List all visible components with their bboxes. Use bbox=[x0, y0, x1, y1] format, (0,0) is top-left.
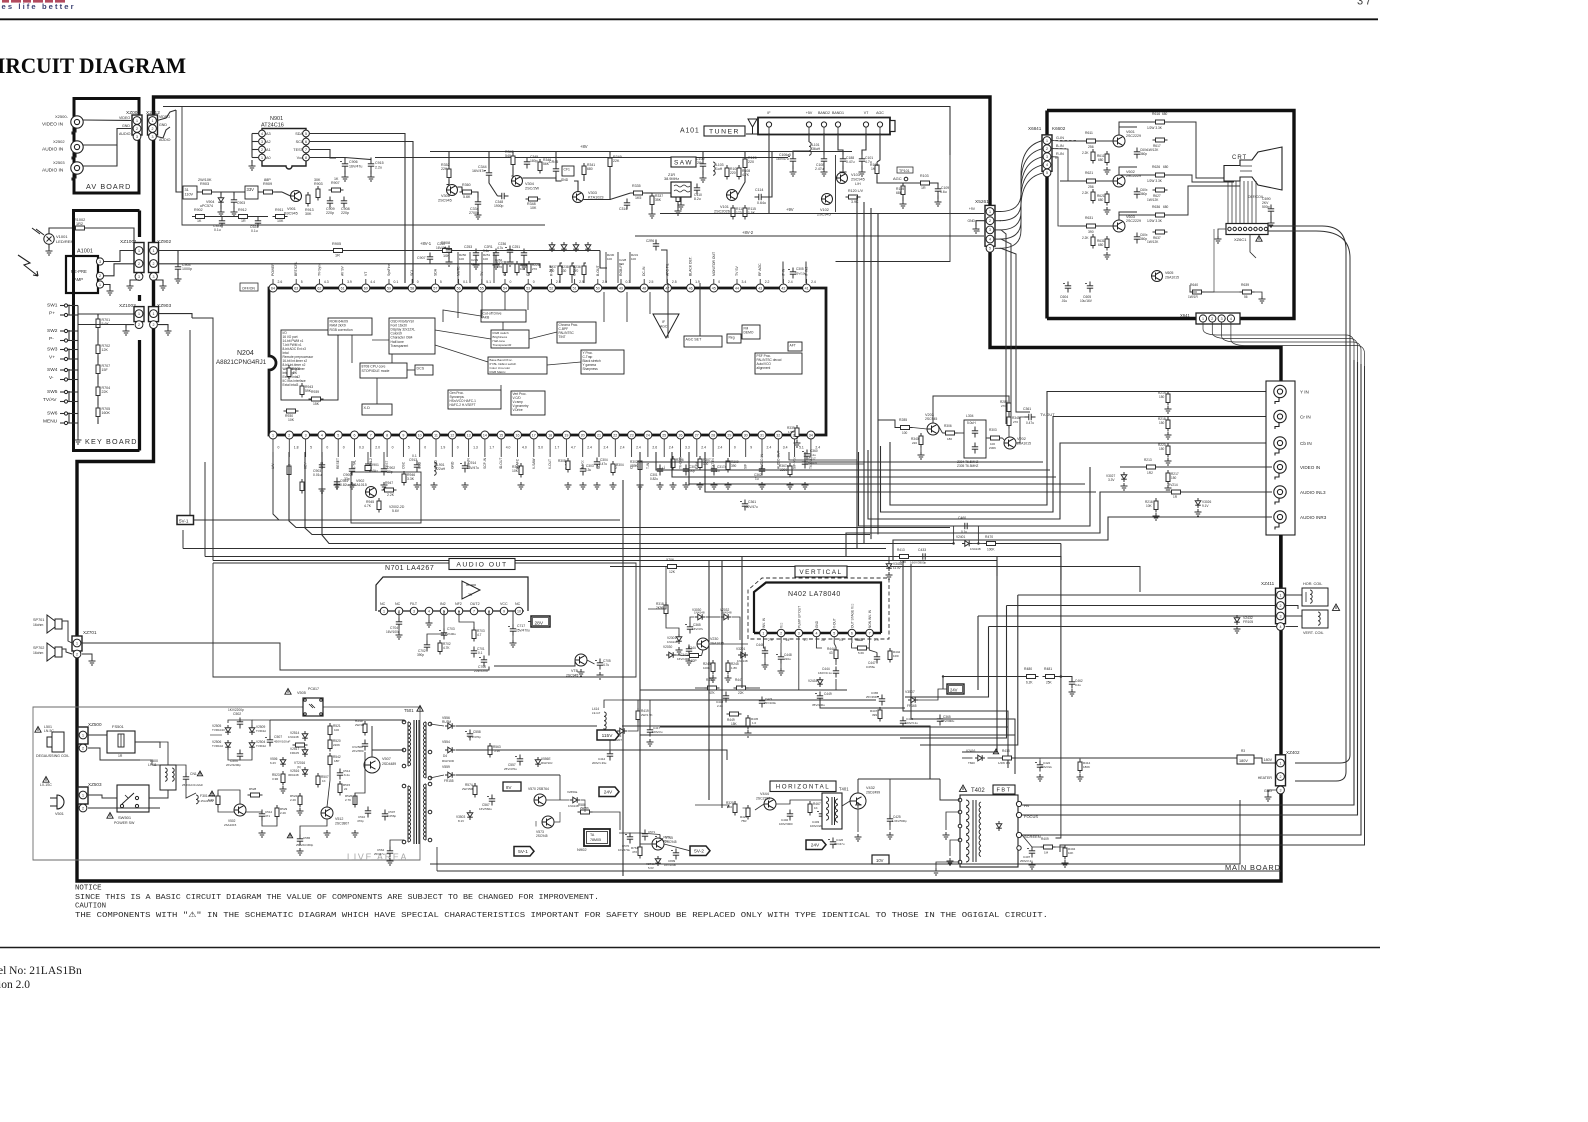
FBT winding primary bbox=[966, 842, 969, 848]
wire bbox=[805, 262, 807, 284]
svg-text:XZ500: XZ500 bbox=[88, 722, 102, 727]
wire bbox=[68, 305, 78, 307]
svg-text:2SC2229: 2SC2229 bbox=[1126, 219, 1141, 223]
ground bbox=[900, 201, 907, 208]
zener diode V904 bbox=[218, 195, 224, 205]
tuner pin +5V bbox=[806, 122, 811, 127]
svg-text:5.0uH: 5.0uH bbox=[967, 421, 976, 425]
svg-text:4: 4 bbox=[428, 609, 430, 613]
svg-text:1: 1 bbox=[76, 641, 78, 645]
capacitor C365 bbox=[687, 623, 693, 634]
svg-text:39K: 39K bbox=[632, 464, 639, 468]
safety warning mark bbox=[1332, 604, 1339, 610]
diode V2401 bbox=[962, 541, 972, 547]
svg-text:IRCUIT DIAGRAM: IRCUIT DIAGRAM bbox=[0, 53, 186, 78]
wire bbox=[806, 279, 808, 284]
svg-text:L9-G7: L9-G7 bbox=[592, 711, 601, 715]
svg-text:C502: C502 bbox=[233, 712, 241, 716]
wire bbox=[631, 439, 633, 444]
svg-text:0.056u: 0.056u bbox=[866, 665, 876, 669]
svg-text:0: 0 bbox=[424, 446, 426, 450]
wire bbox=[60, 314, 64, 316]
svg-text:TV-Sync: TV-Sync bbox=[317, 263, 321, 276]
wire bbox=[192, 318, 213, 561]
svg-text:2: 2 bbox=[1211, 317, 1213, 321]
safety warning mark bbox=[107, 813, 113, 819]
diode V559 bbox=[445, 772, 455, 778]
capacitor C305 bbox=[790, 268, 796, 279]
wire bbox=[425, 722, 427, 778]
wire bbox=[587, 660, 595, 664]
svg-text:2.4: 2.4 bbox=[587, 446, 592, 450]
svg-text:5: 5 bbox=[833, 631, 835, 635]
svg-text:256: 256 bbox=[1088, 185, 1094, 189]
svg-text:KEY: KEY bbox=[304, 462, 308, 469]
None bbox=[1091, 189, 1095, 204]
svg-text:30K: 30K bbox=[314, 178, 321, 182]
wire bbox=[251, 160, 253, 163]
resistor R930 bbox=[284, 409, 299, 413]
svg-text:24V: 24V bbox=[604, 790, 613, 796]
svg-text:4.7: 4.7 bbox=[477, 633, 482, 637]
svg-text:2SC945: 2SC945 bbox=[665, 840, 677, 844]
svg-text:6.2V: 6.2V bbox=[270, 761, 276, 765]
resistor R761 bbox=[638, 844, 642, 859]
svg-text:FR105: FR105 bbox=[290, 751, 299, 755]
wire bbox=[158, 314, 192, 318]
T501 secondary winding bbox=[423, 770, 426, 774]
svg-text:V-SAW: V-SAW bbox=[532, 458, 536, 469]
T501 secondary winding bbox=[423, 722, 426, 726]
ground bbox=[790, 169, 797, 176]
wire bbox=[972, 543, 984, 545]
svg-text:V2030: V2030 bbox=[663, 645, 672, 649]
wire bbox=[695, 805, 729, 808]
capacitor C417 bbox=[647, 726, 653, 737]
wire bbox=[354, 439, 356, 444]
svg-text:8: 8 bbox=[386, 433, 388, 437]
svg-text:100V/3.2u: 100V/3.2u bbox=[905, 721, 918, 725]
svg-text:0.47u: 0.47u bbox=[846, 160, 855, 164]
svg-text:R481: R481 bbox=[1044, 667, 1052, 671]
wire bbox=[60, 422, 64, 424]
ground bbox=[1104, 252, 1111, 259]
None bbox=[1084, 139, 1099, 143]
wire stage2 in bbox=[1051, 149, 1084, 181]
wire bbox=[652, 190, 678, 193]
ground bbox=[686, 658, 693, 665]
T501 secondary winding 2 bbox=[423, 824, 426, 828]
wire bbox=[1268, 790, 1276, 794]
resistor R616 bbox=[1153, 120, 1168, 124]
wire bbox=[680, 444, 682, 457]
wire B+ to horizontal output bbox=[622, 726, 930, 779]
IC block IF AGC bbox=[653, 314, 679, 338]
wire bbox=[741, 557, 743, 689]
resistor R520 bbox=[328, 737, 332, 752]
diode bbox=[585, 242, 591, 252]
svg-text:3: 3 bbox=[1280, 614, 1282, 618]
N901 pin Vcc bbox=[303, 154, 310, 161]
svg-text:+9V: +9V bbox=[969, 207, 976, 211]
diode V2650 bbox=[570, 797, 580, 803]
svg-text:15K: 15K bbox=[313, 402, 320, 406]
safety warning mark bbox=[1256, 236, 1262, 242]
svg-text:BAND1: BAND1 bbox=[832, 111, 844, 115]
svg-text:220u: 220u bbox=[784, 657, 791, 661]
svg-text:0.01u: 0.01u bbox=[313, 473, 322, 477]
resistor R367 bbox=[788, 463, 792, 478]
T501 aux winding bbox=[408, 806, 411, 810]
resistor R284 bbox=[1007, 400, 1011, 415]
svg-text:1.7: 1.7 bbox=[803, 638, 808, 642]
zener diode V3027 bbox=[1121, 472, 1127, 482]
wire bbox=[696, 439, 698, 444]
resistor R303 bbox=[988, 436, 1003, 440]
svg-text:16V/470u: 16V/470u bbox=[618, 848, 630, 852]
T501 secondary winding 2 bbox=[423, 792, 426, 796]
wire bbox=[690, 279, 692, 284]
svg-text:1: 1 bbox=[383, 609, 385, 613]
connector XZ402 bbox=[1276, 755, 1286, 786]
wire bbox=[451, 439, 453, 444]
wire bbox=[878, 420, 898, 428]
wire CRT video harness bbox=[1203, 323, 1354, 361]
resistor R913 bbox=[306, 192, 310, 207]
T501 secondary winding 2 bbox=[423, 800, 426, 804]
svg-text:5: 5 bbox=[440, 280, 442, 284]
wire bbox=[68, 413, 78, 415]
wire bbox=[252, 149, 258, 151]
svg-text:T-IN: T-IN bbox=[646, 462, 650, 469]
svg-text:C361: C361 bbox=[748, 500, 756, 504]
wire bbox=[183, 548, 886, 550]
svg-text:16V/47u: 16V/47u bbox=[467, 466, 479, 470]
svg-text:SW1: SW1 bbox=[47, 303, 58, 309]
svg-text:SP701: SP701 bbox=[33, 618, 44, 622]
resistor R307 bbox=[698, 456, 702, 471]
svg-text:4: 4 bbox=[261, 132, 263, 136]
ground bbox=[887, 832, 894, 839]
svg-text:R621: R621 bbox=[1085, 171, 1093, 175]
resistor X706 bbox=[665, 565, 680, 569]
wire bbox=[310, 157, 345, 159]
wire bbox=[712, 439, 714, 444]
FBT FOCUS terminal bbox=[1016, 812, 1021, 817]
svg-text:36uH: 36uH bbox=[812, 147, 821, 151]
capacitor C913 bbox=[414, 461, 420, 472]
wire bbox=[300, 819, 327, 835]
wire bbox=[104, 251, 134, 262]
svg-text:1N4148: 1N4148 bbox=[288, 735, 299, 739]
svg-text:TV-OUT: TV-OUT bbox=[1040, 412, 1055, 417]
svg-text:3: 3 bbox=[136, 135, 138, 139]
wire bbox=[448, 152, 450, 167]
svg-text:FBT: FBT bbox=[996, 788, 1011, 794]
wire bbox=[386, 444, 388, 457]
transistor V202 bbox=[1004, 437, 1016, 449]
svg-text:Y IN: Y IN bbox=[1300, 390, 1309, 395]
wire bbox=[859, 452, 1091, 526]
svg-text:A8821CPNG4RJ1: A8821CPNG4RJ1 bbox=[216, 359, 267, 366]
wire bbox=[1119, 215, 1153, 220]
svg-text:DCS: DCS bbox=[417, 367, 425, 371]
svg-text:5.6V: 5.6V bbox=[392, 509, 400, 513]
None bbox=[1134, 188, 1140, 199]
None bbox=[1105, 236, 1109, 251]
svg-text:100: 100 bbox=[334, 728, 339, 732]
resistor R639 bbox=[1240, 290, 1255, 294]
wire bbox=[722, 560, 893, 562]
svg-text:1: 1 bbox=[989, 210, 991, 214]
capacitor C446 bbox=[762, 647, 768, 658]
ground bbox=[446, 259, 453, 266]
svg-text:X901: X901 bbox=[371, 463, 379, 467]
diode bbox=[549, 242, 555, 252]
wire bbox=[427, 634, 444, 641]
svg-text:K6602: K6602 bbox=[1052, 126, 1066, 131]
svg-text:R306: R306 bbox=[676, 458, 684, 462]
wire bbox=[138, 340, 141, 451]
wire bbox=[614, 439, 616, 444]
svg-text:1: 1 bbox=[138, 249, 140, 253]
svg-text:10K: 10K bbox=[530, 206, 537, 210]
capacitor C701 bbox=[471, 647, 477, 658]
wire bbox=[282, 192, 291, 196]
ground bbox=[75, 437, 82, 444]
wire bbox=[435, 330, 491, 339]
wire CRT video harness bbox=[1231, 323, 1365, 367]
wire bbox=[640, 734, 1015, 736]
wire bbox=[780, 637, 782, 643]
diode V3030 bbox=[695, 614, 705, 620]
wire bbox=[447, 180, 450, 185]
wire bbox=[749, 687, 761, 689]
svg-text:R285: R285 bbox=[899, 418, 907, 422]
svg-text:AFT: AFT bbox=[790, 343, 796, 347]
wire bbox=[869, 637, 871, 643]
capacitor C362 bbox=[759, 465, 765, 476]
wire bbox=[97, 314, 99, 316]
diode V3507 bbox=[908, 697, 918, 703]
resistor R574 bbox=[473, 783, 477, 798]
wire bbox=[702, 650, 704, 656]
svg-text:FOCUS: FOCUS bbox=[1024, 814, 1038, 819]
wire bbox=[342, 279, 344, 284]
CRT socket XZ6C1 bbox=[1226, 224, 1268, 235]
svg-text:2SC/2W: 2SC/2W bbox=[525, 187, 540, 191]
resistor R702 bbox=[438, 640, 442, 655]
svg-text:Vcc: Vcc bbox=[297, 156, 303, 160]
AC plug V501 bbox=[50, 795, 64, 809]
wire bbox=[995, 247, 1001, 249]
ground bbox=[725, 482, 732, 489]
capacitor C924 bbox=[255, 217, 261, 228]
svg-text:2SC945: 2SC945 bbox=[851, 178, 865, 182]
svg-text:2W/10K: 2W/10K bbox=[198, 178, 212, 182]
RCA jack bbox=[1274, 511, 1286, 530]
svg-text:V901: V901 bbox=[287, 207, 296, 211]
wire bbox=[60, 358, 64, 360]
FBT internal HV diode bbox=[996, 821, 1002, 831]
live area border bbox=[33, 707, 420, 860]
svg-text:R905: R905 bbox=[332, 242, 341, 246]
svg-text:2.4: 2.4 bbox=[767, 446, 772, 450]
capacitor C903 bbox=[319, 461, 325, 472]
svg-text:0.1: 0.1 bbox=[394, 280, 399, 284]
ground bbox=[1104, 167, 1111, 174]
T501 secondary winding 2 bbox=[423, 836, 426, 840]
ground bbox=[637, 482, 644, 489]
wire bbox=[768, 127, 770, 134]
svg-text:C449: C449 bbox=[824, 692, 832, 696]
wire bbox=[861, 166, 863, 170]
antenna symbol bbox=[746, 119, 759, 134]
wire bbox=[877, 176, 918, 183]
svg-text:53: 53 bbox=[526, 286, 530, 290]
svg-text:5.6K: 5.6K bbox=[208, 798, 214, 802]
svg-text:160V/3900p: 160V/3900p bbox=[910, 561, 927, 565]
svg-text:XZ1001: XZ1001 bbox=[120, 239, 137, 245]
None bbox=[1091, 149, 1095, 164]
wire bbox=[640, 452, 1043, 462]
svg-text:63: 63 bbox=[294, 286, 298, 290]
ground bbox=[1265, 794, 1272, 801]
wire 16V distribution bbox=[580, 750, 727, 760]
wire bbox=[419, 439, 421, 444]
wire bbox=[574, 181, 578, 192]
capacitor C443 bbox=[723, 692, 729, 703]
wire bbox=[940, 779, 960, 800]
IC block PSF processor bbox=[755, 353, 802, 374]
push switch bbox=[61, 368, 69, 381]
wire bbox=[1159, 466, 1273, 468]
IC N204 top pin row bbox=[269, 284, 277, 292]
svg-text:R616: R616 bbox=[1152, 112, 1160, 116]
svg-text:1R: 1R bbox=[241, 219, 246, 223]
svg-text:2.47u: 2.47u bbox=[815, 167, 824, 171]
wire bbox=[635, 235, 984, 237]
wire bbox=[158, 325, 168, 328]
svg-text:SCL: SCL bbox=[410, 269, 414, 276]
wire bbox=[344, 158, 346, 160]
resistor R302B bbox=[638, 458, 642, 473]
wire bbox=[842, 801, 850, 806]
AV input jack panel bbox=[1266, 381, 1295, 535]
svg-text:VTB: VTB bbox=[571, 669, 579, 673]
ground bbox=[507, 259, 514, 266]
svg-text:V507: V507 bbox=[382, 757, 391, 761]
wire bbox=[823, 166, 825, 170]
wire bbox=[390, 840, 404, 847]
wire bbox=[176, 765, 186, 773]
capacitor C343 bbox=[686, 645, 692, 656]
wire bbox=[950, 840, 960, 856]
svg-text:FILT: FILT bbox=[410, 602, 418, 606]
wire bbox=[939, 426, 943, 433]
capacitor C502 bbox=[237, 718, 243, 729]
wire bbox=[272, 439, 274, 444]
capacitor C907 bbox=[427, 253, 433, 264]
svg-text:XZ701: XZ701 bbox=[83, 630, 97, 635]
wire bbox=[176, 110, 183, 192]
capacitor C906 bbox=[342, 160, 348, 171]
svg-text:14: 14 bbox=[483, 433, 487, 437]
capacitor C251 bbox=[521, 249, 527, 260]
capacitor C449 bbox=[817, 692, 823, 703]
wire bbox=[622, 480, 624, 876]
wire bbox=[799, 643, 815, 690]
svg-text:500p: 500p bbox=[1262, 205, 1270, 209]
FBT winding secondary bbox=[979, 846, 981, 851]
ground bbox=[700, 175, 707, 182]
svg-text:SAW: SAW bbox=[674, 159, 693, 166]
resistor bbox=[566, 458, 570, 473]
ground bbox=[510, 640, 517, 647]
svg-text:6.3u: 6.3u bbox=[585, 468, 591, 472]
wire bbox=[962, 757, 973, 759]
ground bbox=[1165, 458, 1172, 465]
wire bbox=[1247, 181, 1249, 224]
wire bbox=[604, 728, 617, 731]
wire bbox=[493, 252, 495, 283]
wire sound Vcc bbox=[933, 396, 1009, 423]
svg-text:OUT STAGE Vcc: OUT STAGE Vcc bbox=[850, 603, 854, 628]
ground bbox=[821, 169, 828, 176]
wire bbox=[1022, 364, 1361, 835]
svg-text:TINT: TINT bbox=[559, 335, 566, 339]
svg-text:OSC: OSC bbox=[401, 461, 405, 469]
svg-text:1: 1 bbox=[261, 156, 263, 160]
svg-text:25: 25 bbox=[662, 433, 666, 437]
ground bbox=[711, 482, 718, 489]
svg-text:R912: R912 bbox=[238, 208, 247, 212]
svg-text:24V: 24V bbox=[950, 688, 958, 693]
svg-text:R903: R903 bbox=[200, 182, 209, 186]
wire to R480 riser bbox=[999, 543, 1061, 545]
wire bbox=[946, 812, 960, 830]
wire bbox=[62, 621, 72, 643]
diode V2504 bbox=[249, 740, 255, 750]
wire bbox=[517, 439, 519, 444]
T501 secondary winding 2 bbox=[423, 808, 426, 812]
wire bbox=[1051, 140, 1078, 142]
svg-text:C251: C251 bbox=[512, 245, 520, 249]
svg-text:R631: R631 bbox=[1085, 216, 1093, 220]
top rule line bbox=[0, 18, 1378, 20]
svg-text:LED/REM: LED/REM bbox=[56, 239, 74, 244]
svg-text:9: 9 bbox=[503, 609, 505, 613]
wire bbox=[104, 264, 134, 276]
svg-text:R902: R902 bbox=[194, 208, 203, 212]
ground bbox=[787, 482, 794, 489]
resistor R228 bbox=[515, 261, 519, 276]
connector XZ004 bbox=[132, 115, 142, 135]
svg-text:2: 2 bbox=[1280, 604, 1282, 608]
svg-text:1N4148: 1N4148 bbox=[721, 611, 732, 615]
svg-text:3: 3 bbox=[798, 631, 800, 635]
svg-text:R626: R626 bbox=[1152, 165, 1160, 169]
svg-text:5: 5 bbox=[408, 446, 410, 450]
None bbox=[1091, 234, 1095, 249]
transistor bbox=[1113, 135, 1125, 147]
svg-text:A101: A101 bbox=[680, 128, 700, 135]
svg-text:2.6: 2.6 bbox=[652, 446, 657, 450]
svg-text:V512: V512 bbox=[335, 817, 343, 821]
wire bbox=[97, 399, 99, 406]
safety warning mark bbox=[959, 785, 966, 791]
T501 aux winding bbox=[408, 826, 411, 830]
